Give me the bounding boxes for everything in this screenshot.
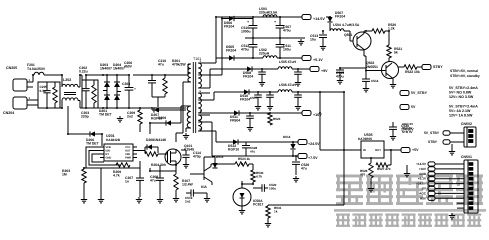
svg-text:+5V: +5V [412,148,419,152]
svg-text:4.7k: 4.7k [113,174,120,178]
svg-text:TM DET: TM DET [99,113,113,117]
svg-text:5V_STBY=2.4mA: 5V_STBY=2.4mA [449,86,478,90]
svg-text:450V: 450V [124,65,133,69]
svg-text:RGP10: RGP10 [228,148,239,152]
svg-text:KIA: KIA [201,185,207,189]
svg-text:R523: R523 [273,117,281,121]
svg-text:5V= NO 0.8W: 5V= NO 0.8W [449,91,472,95]
svg-text:2N5551: 2N5551 [366,65,378,69]
svg-text:R204 300: R204 300 [151,163,166,167]
svg-text:TM DET: TM DET [86,142,100,146]
svg-text:+: + [274,20,276,24]
svg-text:L506 47uH: L506 47uH [279,83,297,87]
svg-text:1.2k: 1.2k [388,27,395,31]
svg-text:47u: 47u [150,179,156,183]
svg-text:5V: 5V [411,105,416,109]
svg-text:T4.0A/250V: T4.0A/250V [27,67,46,71]
svg-text:+: + [247,20,249,24]
svg-text:L505 47uH: L505 47uH [279,60,297,64]
svg-text:CN501: CN501 [461,155,472,159]
svg-text:104/50V: 104/50V [401,128,414,132]
svg-text:+5.1V: +5.1V [418,177,427,181]
svg-text:FR504: FR504 [230,119,240,123]
svg-text:2n2: 2n2 [185,200,191,204]
svg-text:Q501: Q501 [344,33,352,37]
svg-text:1/2.4W: 1/2.4W [182,183,194,187]
svg-text:470u: 470u [241,48,249,52]
svg-text:470p: 470p [193,155,201,159]
svg-text:D209: D209 [158,116,166,120]
svg-text:C514: C514 [371,79,379,83]
svg-text:1N4148: 1N4148 [154,138,166,142]
svg-text:STBY: STBY [433,65,443,69]
svg-text:PWR: PWR [125,157,131,160]
svg-text:4.7k: 4.7k [256,175,262,179]
svg-text:+7.5V: +7.5V [308,156,318,160]
svg-text:FR104: FR104 [335,15,345,19]
svg-text:D514: D514 [283,135,291,139]
svg-text:1k: 1k [274,210,278,214]
svg-text:5k: 5k [394,51,398,55]
svg-text:GND: GND [419,172,427,176]
svg-text:STBY=0V, standby: STBY=0V, standby [450,74,480,78]
svg-text:IN: IN [363,148,366,152]
svg-text:R522 10k: R522 10k [405,70,420,74]
svg-text:R524 1k: R524 1k [238,157,250,161]
svg-text:+5.1V: +5.1V [313,58,323,62]
svg-text:D515: D515 [216,155,224,159]
svg-text:CN205: CN205 [6,66,17,70]
svg-text:470k/2W: 470k/2W [172,63,186,67]
svg-text:0.22u: 0.22u [79,70,88,74]
svg-text:C517: C517 [250,96,258,100]
svg-text:12V= NO 3.5W: 12V= NO 3.5W [449,95,474,99]
svg-text:H5V: H5V [420,196,427,200]
svg-text:PC817: PC817 [253,203,263,207]
svg-text:AGC: AGC [419,191,427,195]
svg-text:FR104: FR104 [226,49,236,53]
svg-text:100u: 100u [269,187,276,191]
svg-text:1M: 1M [62,173,67,177]
svg-text:CN502: CN502 [461,122,472,126]
svg-text:1000u: 1000u [241,30,251,34]
svg-text:220uH/3.5A: 220uH/3.5A [259,11,278,15]
svg-text:+: + [134,87,136,91]
svg-text:FR104: FR104 [243,75,253,79]
svg-text:47u: 47u [250,150,255,154]
svg-text:470u: 470u [283,29,291,33]
svg-text:L202: L202 [63,78,71,82]
svg-text:47u: 47u [158,63,164,67]
svg-text:GND: GND [106,157,112,160]
svg-text:470: 470 [360,173,365,177]
svg-text:1n: 1n [125,180,129,184]
svg-text:STBY: STBY [428,140,438,144]
svg-text:KA78R05: KA78R05 [358,137,372,141]
svg-text:FR104: FR104 [224,25,234,29]
svg-text:+24.5V: +24.5V [416,182,427,186]
svg-text:100u: 100u [283,48,291,52]
svg-text:+16V: +16V [313,113,322,117]
svg-text:5V= 4A 2.1W: 5V= 4A 2.1W [449,109,471,113]
svg-text:+14.5V: +14.5V [313,17,325,21]
svg-text:5V_STBY=2.4mA: 5V_STBY=2.4mA [449,105,478,109]
svg-text:5V_STBY: 5V_STBY [424,131,440,135]
svg-text:47u: 47u [301,167,307,171]
svg-text:L504: L504 [333,23,341,27]
svg-text:STBY=5V, normal: STBY=5V, normal [450,69,478,73]
svg-text:D208: D208 [146,138,154,142]
svg-text:220p: 220p [81,115,89,119]
svg-text:2n2: 2n2 [127,115,133,119]
svg-text:+14.5V: +14.5V [416,162,427,166]
svg-text:12V= 1A 8.5W: 12V= 1A 8.5W [449,114,473,118]
svg-text:R527 470: R527 470 [377,167,391,171]
svg-text:1N4007: 1N4007 [100,67,112,71]
svg-text:4.7uH/3.5A: 4.7uH/3.5A [342,23,360,27]
svg-text:10u: 10u [310,38,316,42]
svg-text:KA3842B: KA3842B [106,138,121,142]
svg-text:+16V: +16V [419,167,427,171]
svg-text:OUT: OUT [375,148,381,152]
svg-text:+9V: +9V [321,69,328,73]
svg-text:+24.5V: +24.5V [308,142,320,146]
svg-text:C204: C204 [122,82,130,86]
svg-text:FR104: FR104 [240,98,250,102]
svg-text:220uH: 220uH [259,52,270,56]
svg-text:5V_STBY: 5V_STBY [411,91,428,95]
svg-text:CN204: CN204 [3,111,14,115]
